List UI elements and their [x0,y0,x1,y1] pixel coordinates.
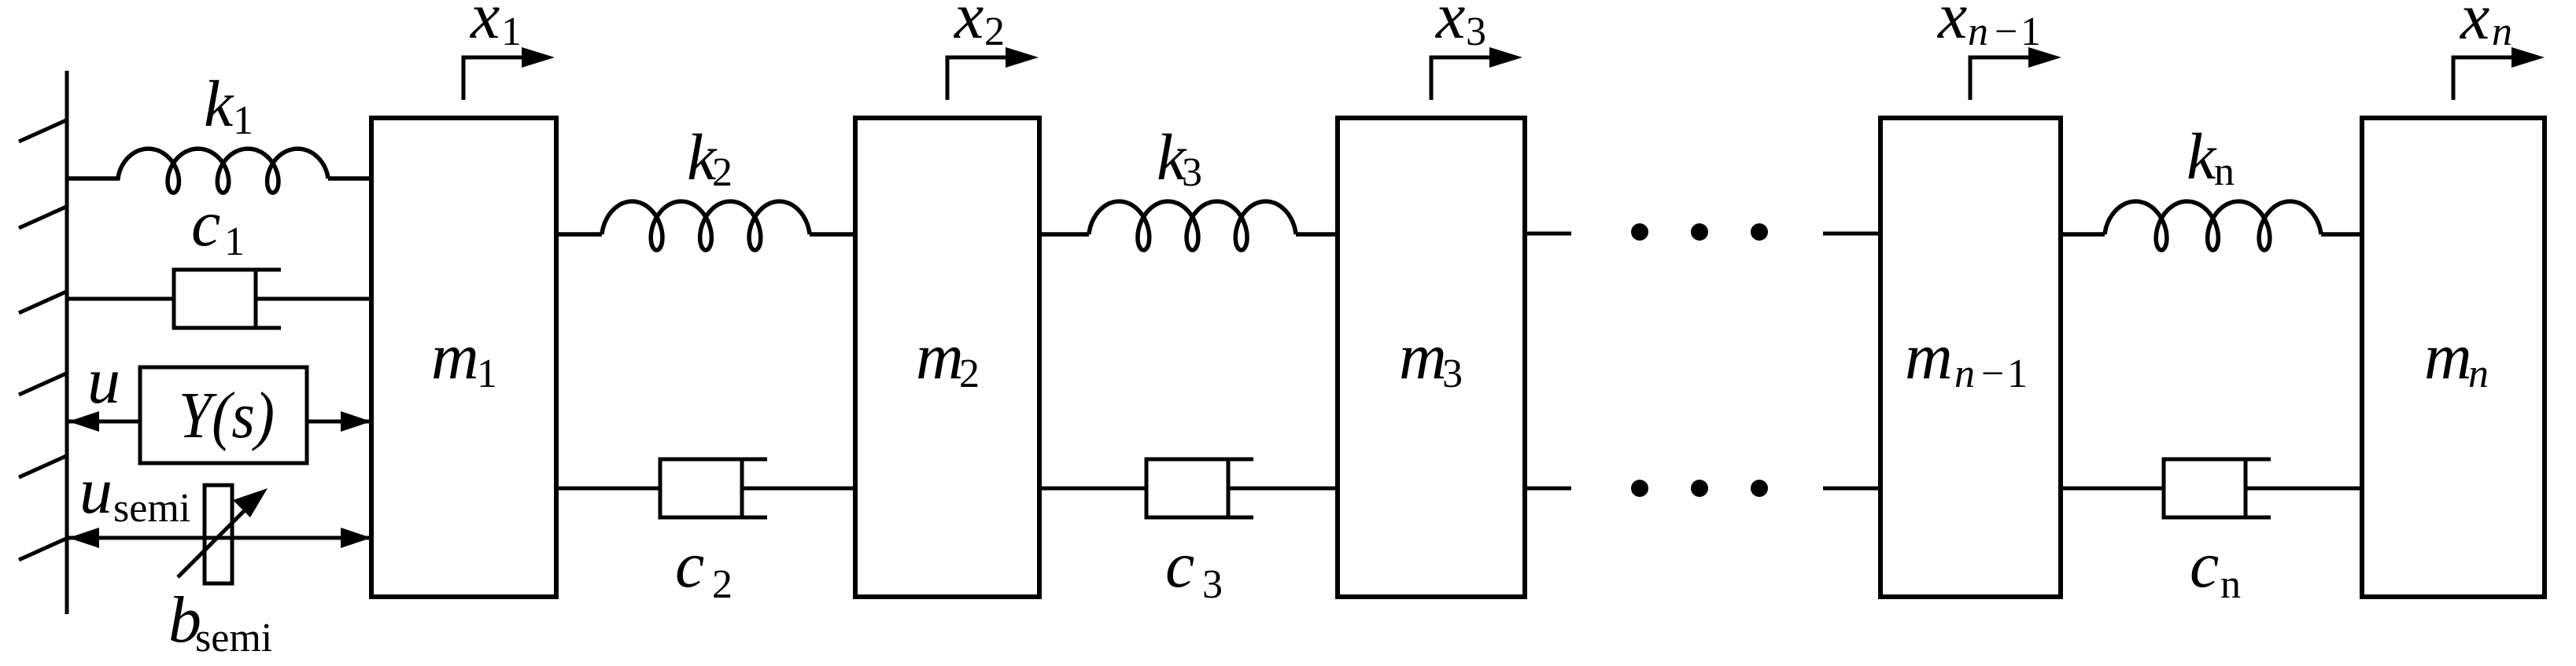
spring k3 [1089,201,1296,250]
wire stub right of m3 (spring level) [1525,232,1571,236]
svg-text:3: 3 [1202,562,1223,607]
damper cn [2164,458,2271,520]
spring k3 wire from m2 [1039,232,1089,237]
wire stub left of m_n-1 (spring level) [1823,232,1880,236]
svg-text:k: k [204,68,234,141]
svg-text:c: c [2190,528,2219,602]
displacement arrow x2 [946,47,1039,100]
svg-text:1: 1 [224,219,245,264]
force arrow u_semi [68,528,371,548]
mass m3 [1338,118,1525,597]
damper c1 lead wire [67,297,174,301]
svg-text:n: n [2492,9,2512,54]
damper c2 rod wire [742,487,855,491]
svg-text:3: 3 [1182,150,1202,195]
svg-text:n: n [2220,562,2241,607]
svg-text:m: m [1399,320,1447,393]
svg-text:3: 3 [1442,351,1463,396]
damper c1 rod wire [256,297,373,301]
damper cn lead wire [2061,487,2164,491]
wire stub right of m3 (damper level) [1525,487,1571,491]
svg-text:m: m [431,320,479,393]
displacement arrow x_n [2452,47,2545,100]
ellipsis dots (damper level) [1631,480,1768,497]
svg-text:x: x [953,0,984,53]
spring kn [2105,201,2321,250]
controller block Y(s) [140,367,307,463]
svg-text:−: − [1981,351,2004,396]
displacement arrow x_n-1 [1969,47,2062,100]
svg-text:1: 1 [233,98,253,143]
svg-text:x: x [1936,0,1967,53]
spring k2 [602,201,810,250]
svg-text:u: u [87,344,120,418]
mass m_n-1 [1880,118,2061,597]
svg-text:1: 1 [2021,9,2041,54]
svg-text:1: 1 [501,9,522,54]
svg-text:n: n [2468,351,2489,396]
damper c2 lead wire [556,487,660,491]
svg-text:−: − [1995,9,2017,54]
damper c1 [174,268,281,330]
force arrow u right segment [307,411,371,432]
svg-text:semi: semi [113,486,190,531]
svg-text:x: x [469,0,500,53]
svg-text:3: 3 [1466,9,1486,54]
damper cn rod wire [2246,487,2362,491]
ellipsis dots (spring level) [1631,223,1768,241]
svg-text:m: m [2424,320,2472,393]
damper c2 [660,458,767,520]
displacement arrow x3 [1430,47,1523,100]
damper c3 rod wire [1228,487,1338,491]
variable damper b_semi [178,485,268,583]
svg-text:x: x [1434,0,1465,53]
svg-text:2: 2 [984,9,1005,54]
wall hatch marks [19,120,66,560]
wall (fixed support) [65,71,69,614]
damper c3 [1146,458,1253,520]
svg-text:Y(s): Y(s) [179,379,275,452]
spring k2 wire to m2 [810,232,855,237]
displacement arrow x1 [462,47,555,100]
svg-text:1: 1 [477,351,497,396]
svg-text:u: u [79,454,113,528]
svg-text:m: m [916,320,964,393]
mass m_n [2362,118,2545,597]
spring kn wire to m_n [2321,232,2362,237]
spring k1 wire to mass m1 [328,176,373,181]
svg-text:2: 2 [959,351,980,396]
svg-text:k: k [2187,120,2217,193]
mass m2 [855,118,1039,597]
damper c3 lead wire [1039,487,1146,491]
spring kn wire from m_n-1 [2061,232,2105,237]
svg-text:2: 2 [712,150,733,195]
svg-text:n: n [1968,9,1988,54]
spring k3 wire to m3 [1296,232,1338,237]
svg-text:x: x [2459,0,2489,53]
svg-text:1: 1 [2007,351,2028,396]
mass m1 [371,118,556,597]
spring k1 wire from wall [67,149,328,193]
svg-text:c: c [1165,528,1194,602]
svg-text:n: n [2214,149,2235,194]
svg-text:c: c [191,187,220,260]
svg-text:m: m [1905,320,1953,393]
svg-text:semi: semi [195,616,272,660]
svg-text:c: c [675,528,704,602]
svg-text:2: 2 [712,562,733,607]
force arrow u left segment [68,411,140,432]
spring k2 wire from m1 [556,232,602,237]
wire stub left of m_n-1 (damper level) [1823,487,1880,491]
svg-text:n: n [1954,351,1975,396]
